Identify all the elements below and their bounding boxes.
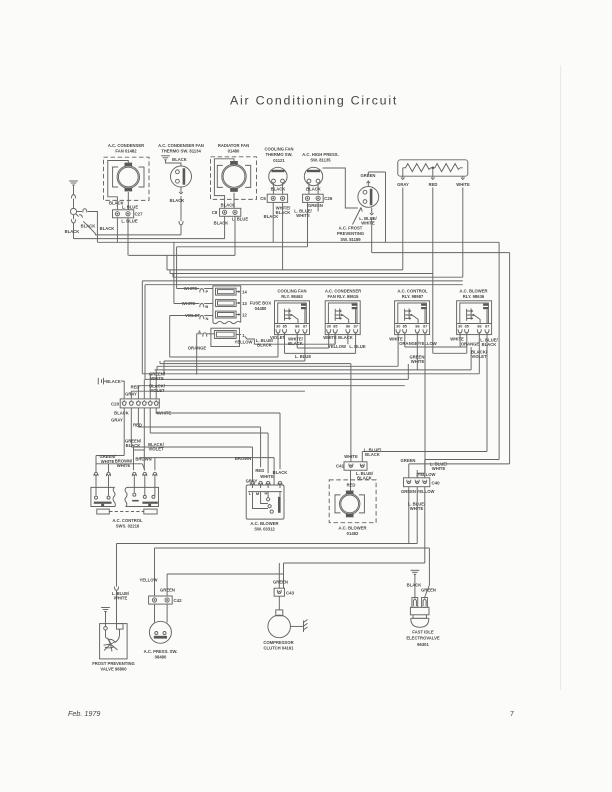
footer date (68, 709, 100, 718)
bus lower 6 (131, 390, 305, 392)
svg-text:85: 85 (465, 324, 469, 328)
svg-text:C8: C8 (212, 210, 218, 215)
label L. BLUE cooling (295, 354, 311, 359)
wire lbluewhite to C40 (425, 242, 499, 477)
A.C. high pressure switch label (302, 152, 339, 163)
svg-text:COOLING FAN: COOLING FAN (277, 288, 306, 293)
label BLACK splice down (65, 229, 80, 234)
label WHITE control relay (389, 336, 403, 341)
label GREEN above C43 (273, 579, 288, 584)
svg-text:WHITE: WHITE (323, 335, 337, 340)
svg-text:BLACK: BLACK (264, 214, 279, 219)
cooling fan relay (275, 301, 310, 335)
svg-text:SWS. 02216: SWS. 02216 (116, 524, 140, 529)
svg-text:BLACK: BLACK (482, 342, 497, 347)
svg-text:GREEN: GREEN (160, 587, 175, 592)
wire yellow to C40 (416, 470, 418, 478)
title (230, 94, 398, 108)
svg-text:Air Conditioning Circuit: Air Conditioning Circuit (230, 94, 398, 108)
wire C20 pin6 down (156, 408, 280, 469)
svg-text:THERMO SW.: THERMO SW. (266, 152, 293, 157)
wire condenser relay 86 (347, 332, 349, 344)
svg-text:A.C. CONTROL: A.C. CONTROL (397, 288, 428, 293)
svg-text:RED: RED (255, 468, 264, 473)
svg-text:12: 12 (242, 312, 247, 317)
svg-text:86: 86 (415, 324, 419, 328)
svg-text:P: P (205, 289, 208, 294)
label VIOLET cooling relay (270, 335, 286, 340)
wire blower relay 87 to C41 (362, 332, 487, 451)
svg-text:FUSE BOX: FUSE BOX (250, 300, 272, 305)
label GREEN/WHITE above C20 (149, 371, 166, 381)
fuse terminal A (197, 329, 215, 375)
svg-text:GREEN: GREEN (273, 579, 288, 584)
svg-text:A.C. FROST: A.C. FROST (339, 225, 363, 230)
svg-text:01480: 01480 (228, 149, 240, 154)
frost preventing valve label (92, 661, 135, 672)
label ORANGE fuse A (188, 345, 207, 350)
svg-text:RED: RED (131, 384, 140, 389)
wire gray bus (167, 188, 403, 270)
svg-text:BROWN: BROWN (235, 456, 251, 461)
svg-text:GREEN: GREEN (421, 587, 436, 592)
svg-text:WHITE: WHITE (114, 596, 128, 601)
label BLACK above C8 (221, 202, 236, 207)
svg-text:BLACK: BLACK (365, 452, 380, 457)
battery feed symbol (69, 181, 78, 208)
svg-text:BLACK: BLACK (338, 335, 353, 340)
svg-text:Feb. 1979: Feb. 1979 (68, 709, 100, 718)
label RED below C20 (133, 422, 142, 427)
svg-text:VIOLET: VIOLET (148, 447, 164, 452)
svg-text:86: 86 (346, 324, 350, 328)
wire control relay 30 white (157, 332, 398, 366)
svg-text:YELLOW: YELLOW (328, 344, 346, 349)
wire yellow bottom bus (155, 487, 430, 598)
compressor clutch label (263, 640, 294, 651)
svg-text:C26: C26 (324, 196, 333, 201)
wire control relay 85 orangeyellow (405, 188, 467, 354)
A.C. blower switch (246, 485, 284, 519)
cooling fan thermo switch (269, 167, 287, 194)
wire C26 green stub (317, 202, 319, 211)
svg-text:87: 87 (423, 324, 427, 328)
svg-text:SW. 03312: SW. 03312 (254, 527, 275, 532)
A.C. pressure switch (149, 604, 171, 643)
svg-text:BLACK: BLACK (65, 229, 80, 234)
svg-text:96301: 96301 (417, 642, 429, 647)
bus wire lblue white (177, 202, 308, 246)
radiator fan motor (211, 157, 257, 200)
label BROWN blower (235, 456, 251, 461)
A.C. condenser fan motor M1 label (108, 143, 144, 154)
svg-text:RED: RED (347, 482, 356, 487)
label BLACK above C5 (271, 187, 286, 192)
svg-text:YELLOW: YELLOW (417, 489, 435, 494)
svg-text:BLACK: BLACK (126, 443, 141, 448)
svg-text:SW. 81135: SW. 81135 (310, 158, 331, 163)
svg-text:L. BLUE: L. BLUE (121, 219, 137, 224)
svg-text:WHITE: WHITE (344, 454, 358, 459)
wire C20 pin5 down white (150, 408, 268, 473)
svg-text:BLACK: BLACK (257, 342, 272, 347)
svg-text:WHITE: WHITE (411, 359, 425, 364)
fuse box label (250, 300, 272, 311)
svg-text:A.C. HIGH PRESS.: A.C. HIGH PRESS. (302, 152, 339, 157)
svg-text:YELLOW: YELLOW (140, 577, 158, 582)
fast idle electrovalve label (406, 629, 440, 646)
label YELLOW above C42 (140, 577, 158, 582)
label L.BLUE/BLACK cooling (0, 0, 1, 1)
svg-text:L. BLUE: L. BLUE (349, 344, 365, 349)
wire green/white bus (96, 464, 145, 471)
wire condenser relay 85 yellow (334, 332, 336, 344)
label L. BLUE/WHITE below frost switch (359, 216, 377, 226)
connector C27 (113, 210, 144, 218)
svg-text:01482: 01482 (347, 531, 359, 536)
wire high press to frost switch (323, 168, 358, 208)
fuse box lower housing (211, 328, 240, 346)
A.C. control switch pins (94, 464, 157, 496)
svg-text:A.C. PRESS. SW.: A.C. PRESS. SW. (144, 649, 178, 654)
svg-text:30: 30 (458, 324, 462, 328)
wire blower relay 86 blackviolet (478, 332, 480, 374)
svg-text:7: 7 (510, 709, 514, 718)
label GRAY below C20 (111, 418, 123, 423)
label GREEN above frost switch (361, 173, 376, 178)
svg-text:FAN 01482: FAN 01482 (115, 149, 137, 154)
connector C43 (274, 588, 294, 596)
svg-text:85: 85 (283, 324, 287, 328)
label YELLOW fuse (235, 339, 253, 344)
wire C27 black drop (116, 218, 118, 243)
label YELLOW below C40 (417, 489, 435, 494)
svg-text:BLACK: BLACK (172, 157, 187, 162)
splice node (70, 208, 76, 214)
svg-text:30: 30 (327, 324, 331, 328)
label GREEN below C26 (308, 203, 323, 208)
label GREEN/WHITE switch (99, 454, 116, 464)
frost preventing valve (100, 624, 128, 659)
svg-text:BLACK: BLACK (271, 187, 286, 192)
A.C. control switch left knob (97, 509, 110, 514)
bus wire white upper (173, 274, 463, 278)
wire condenser fan to C27 (117, 192, 128, 210)
svg-text:CLUTCH 04161: CLUTCH 04161 (263, 646, 294, 651)
label YELLOW above C40 (418, 472, 436, 477)
label BLACK below C20 (114, 410, 129, 415)
fuse 14 (216, 288, 248, 295)
label ORANGE/YELLOW control relay (399, 341, 437, 346)
svg-text:87: 87 (354, 324, 358, 328)
wire cooling relay 85 lblue (285, 332, 356, 353)
A.C. control switch right (125, 487, 159, 506)
wire C20 pin1 down (96, 408, 124, 464)
svg-text:BLACK: BLACK (221, 202, 236, 207)
label BLACK above C26 (306, 187, 321, 192)
svg-text:SW. 81189: SW. 81189 (340, 237, 361, 242)
label RED blower motor (347, 482, 356, 487)
svg-text:C40: C40 (431, 480, 440, 485)
wire C20 riser 2 (130, 391, 132, 399)
svg-text:85: 85 (403, 324, 407, 328)
bus lower 2 (160, 363, 351, 365)
wire resistor red lead (431, 168, 435, 180)
svg-text:30: 30 (276, 324, 280, 328)
label L. BLUE/WHITE below C40 (408, 501, 426, 511)
label WHITE arrow below C20 (156, 410, 171, 415)
svg-text:14: 14 (242, 289, 247, 294)
label BLACK battery (106, 379, 121, 384)
svg-text:86: 86 (477, 324, 481, 328)
wire frost valve drop (115, 544, 119, 624)
wire C41 lbluewblack (361, 452, 363, 462)
svg-text:30: 30 (396, 324, 400, 328)
svg-text:VALVE 98800: VALVE 98800 (100, 667, 127, 672)
label RED blower (255, 468, 264, 473)
svg-text:BLACK: BLACK (273, 470, 288, 475)
svg-text:THERMO SW. 81134: THERMO SW. 81134 (161, 149, 201, 154)
svg-text:N: N (206, 316, 209, 321)
svg-text:A.C. CONDENSER FAN: A.C. CONDENSER FAN (158, 143, 204, 148)
label L. BLUE/WHITE below C26 (294, 208, 312, 218)
svg-text:C27: C27 (134, 212, 143, 217)
fuse terminal P (200, 289, 213, 295)
svg-text:WHITE: WHITE (456, 182, 470, 187)
ground at frost valve (101, 608, 110, 627)
svg-text:GRAY: GRAY (125, 391, 137, 396)
label BLACK/VIOLET mid (148, 442, 165, 452)
svg-text:WHITE: WHITE (432, 466, 446, 471)
svg-text:VIOLET: VIOLET (270, 335, 286, 340)
svg-text:BLACK: BLACK (288, 341, 303, 346)
svg-text:ORANGE/YELLOW: ORANGE/YELLOW (399, 341, 437, 346)
svg-text:BLACK: BLACK (306, 187, 321, 192)
bus wire black main (97, 241, 499, 243)
label BLACK at thermo switch ground (172, 157, 187, 162)
svg-text:04480: 04480 (255, 306, 267, 311)
svg-text:A.C. BLOWER: A.C. BLOWER (459, 288, 487, 293)
label L. BLUE/BLACK fuse (256, 338, 274, 348)
svg-text:C42: C42 (173, 598, 182, 603)
label ORANGE blower relay (461, 341, 480, 346)
wire C20 riser 5 (149, 374, 151, 399)
bus wire black C8 (74, 216, 225, 238)
svg-text:VIOLET: VIOLET (471, 354, 487, 359)
wire control relay 87 to C40 yellow (417, 332, 425, 478)
A.C. control relay label (397, 288, 428, 299)
label BLACK blower (273, 470, 288, 475)
A.C. high pressure switch (304, 167, 322, 194)
wire green into fast idle (0, 0, 1, 1)
label RED above C20 (131, 384, 140, 389)
ground at thermo switch (161, 156, 181, 166)
svg-text:BLACK: BLACK (170, 198, 185, 203)
A.C. blower switch label (250, 521, 278, 532)
label BLACK below C5 (264, 214, 279, 219)
wire frost bottom bus (372, 252, 510, 254)
radiator fan motor label (218, 143, 249, 154)
label WHITE blower relay (450, 336, 464, 341)
svg-text:08480: 08480 (155, 655, 167, 660)
cooling fan thermo switch label (264, 146, 293, 163)
fuse 12 (216, 311, 248, 318)
svg-text:PREVENTING: PREVENTING (337, 231, 364, 236)
wire resistor white lead (461, 176, 465, 179)
label WHITE blower (260, 474, 274, 479)
bus wire red upper (170, 270, 433, 274)
wire splice diagonal (76, 214, 96, 235)
svg-text:FROST PREVENTING: FROST PREVENTING (92, 661, 135, 666)
connector C20 (111, 399, 159, 408)
A.C. control switch right knob (144, 509, 157, 514)
label L. BLUE condenser relay (349, 344, 365, 349)
label GREEN above C40 (401, 458, 416, 463)
wire white to fuse P (177, 247, 200, 289)
wire C20 riser 6 (155, 370, 157, 399)
svg-text:B: B (205, 304, 208, 309)
label GRAY above C20 (125, 391, 137, 396)
svg-text:RED: RED (429, 182, 438, 187)
label VIOLET fuse N (185, 313, 201, 318)
A.C. blower relay label (459, 288, 487, 299)
wire thermo switch down (179, 187, 183, 235)
label BLACK fast idle (407, 582, 422, 587)
svg-text:C20: C20 (111, 401, 120, 406)
svg-text:L. BLUE: L. BLUE (122, 205, 138, 210)
wire resistor white drop (462, 188, 464, 278)
A.C. control switch left (91, 487, 116, 506)
label WHITE/BLACK below C5 (276, 205, 291, 215)
label BLACK splice right (100, 226, 115, 231)
svg-text:GRAY: GRAY (397, 182, 409, 187)
connector C26 (303, 194, 333, 202)
label WHITE condenser relay (323, 335, 337, 340)
cooling fan relay label (277, 288, 306, 299)
fuse A (214, 331, 247, 340)
svg-text:L. BLUE: L. BLUE (295, 354, 311, 359)
label GREEN above C42 (160, 587, 175, 592)
svg-text:RADIATOR FAN: RADIATOR FAN (218, 143, 249, 148)
A.C. blower motor label (338, 525, 366, 536)
connector C5 (260, 194, 287, 202)
svg-text:GREEN: GREEN (401, 458, 416, 463)
wire splice right (77, 209, 98, 243)
ground at fast idle valve (411, 570, 420, 597)
svg-text:A.C. CONDENSER: A.C. CONDENSER (325, 288, 361, 293)
wire cooling relay 30 violet (170, 332, 278, 357)
bus lower 4 (145, 364, 408, 379)
label GREEN fast idle (421, 587, 436, 592)
svg-text:A.C. BLOWER: A.C. BLOWER (250, 521, 278, 526)
wire C20 riser 4 (143, 379, 145, 399)
fuse 13 (216, 300, 248, 307)
label RED resistor (429, 182, 438, 187)
label GREEN/WHITE control relay (409, 354, 426, 364)
svg-text:FAN RLY. 98615: FAN RLY. 98615 (327, 294, 359, 299)
bus wire thermo black (95, 234, 181, 236)
wire fuse 1 yellow (247, 335, 335, 344)
label L. BLUE/WHITE frost valve (112, 591, 130, 601)
wire brown bus (140, 458, 274, 485)
svg-text:H: H (265, 490, 268, 495)
wire green to C40 (408, 464, 410, 478)
wire C41 to motor red (350, 470, 352, 492)
wire frost switch top (367, 172, 386, 186)
label L. BLUE above C27 (122, 205, 138, 210)
A.C. condenser fan relay label (325, 288, 361, 299)
label BLACK/VIOLET above C20 (149, 383, 166, 393)
svg-text:ORANGE: ORANGE (461, 341, 480, 346)
label YELLOW condenser relay (328, 344, 346, 349)
A.C. frost preventing switch label (337, 208, 364, 242)
wire condenser relay 87 lblue (355, 332, 357, 353)
A.C. condenser fan relay (325, 301, 360, 335)
compressor clutch (268, 596, 304, 638)
label L. BLUE/BLACK above C41 (364, 447, 382, 457)
label BLACK above C27 (109, 201, 124, 206)
bus lower 7 (157, 361, 160, 370)
svg-text:BLACK: BLACK (106, 379, 121, 384)
label WHITE above C41 (344, 454, 358, 459)
svg-text:RLY. 98463: RLY. 98463 (281, 294, 303, 299)
svg-text:GRAY: GRAY (111, 418, 123, 423)
wire violet fuse N (170, 316, 200, 358)
svg-text:86: 86 (295, 324, 299, 328)
svg-text:FAST IDLE: FAST IDLE (412, 629, 434, 634)
footer page number (510, 709, 514, 718)
svg-text:BLACK: BLACK (81, 224, 96, 229)
svg-text:87: 87 (303, 324, 307, 328)
page crease (560, 65, 562, 690)
connector C41 (336, 462, 367, 470)
svg-text:87: 87 (485, 324, 489, 328)
bus loop inner (145, 285, 463, 380)
mechanical link dashed (109, 511, 144, 513)
svg-text:A.C. CONDENSER: A.C. CONDENSER (108, 143, 144, 148)
wire C43 riser (278, 563, 280, 588)
wire control relay 86 greenwhite (155, 332, 472, 370)
wire resistor gray lead (401, 168, 405, 180)
svg-text:BLACK: BLACK (214, 220, 229, 225)
fast idle electrovalve (410, 598, 429, 628)
svg-text:WHITE: WHITE (101, 459, 115, 464)
bus loop outer (142, 281, 463, 374)
label L. BLUE below C8 (232, 216, 248, 221)
bus lower 1 (164, 360, 305, 362)
wire white to C41 (350, 364, 352, 462)
wire C20 pin3 down red (138, 408, 260, 467)
svg-text:COMPRESSOR: COMPRESSOR (263, 640, 293, 645)
A.C. blower switch pins (251, 481, 283, 488)
wire C42 green (167, 574, 283, 596)
battery symbol at C20 (98, 378, 106, 385)
A.C. condenser fan motor M1 (104, 157, 150, 200)
wire white to fuse B (174, 242, 200, 303)
A.C. frost preventing switch (358, 187, 379, 208)
svg-text:COOLING FAN: COOLING FAN (264, 146, 293, 151)
A.C. pressure switch label (144, 649, 178, 660)
svg-text:WHITE: WHITE (361, 220, 375, 225)
label BROWN/WHITE switch (115, 458, 133, 468)
wire frost green vertical (385, 172, 387, 242)
label BLACK below thermo switch (170, 198, 185, 203)
connector C40 (404, 478, 441, 487)
A.C. condenser fan thermo switch label (158, 143, 204, 154)
svg-text:RLY. 98636: RLY. 98636 (463, 294, 485, 299)
wire splice down (72, 215, 76, 239)
connector C42 (149, 596, 182, 604)
